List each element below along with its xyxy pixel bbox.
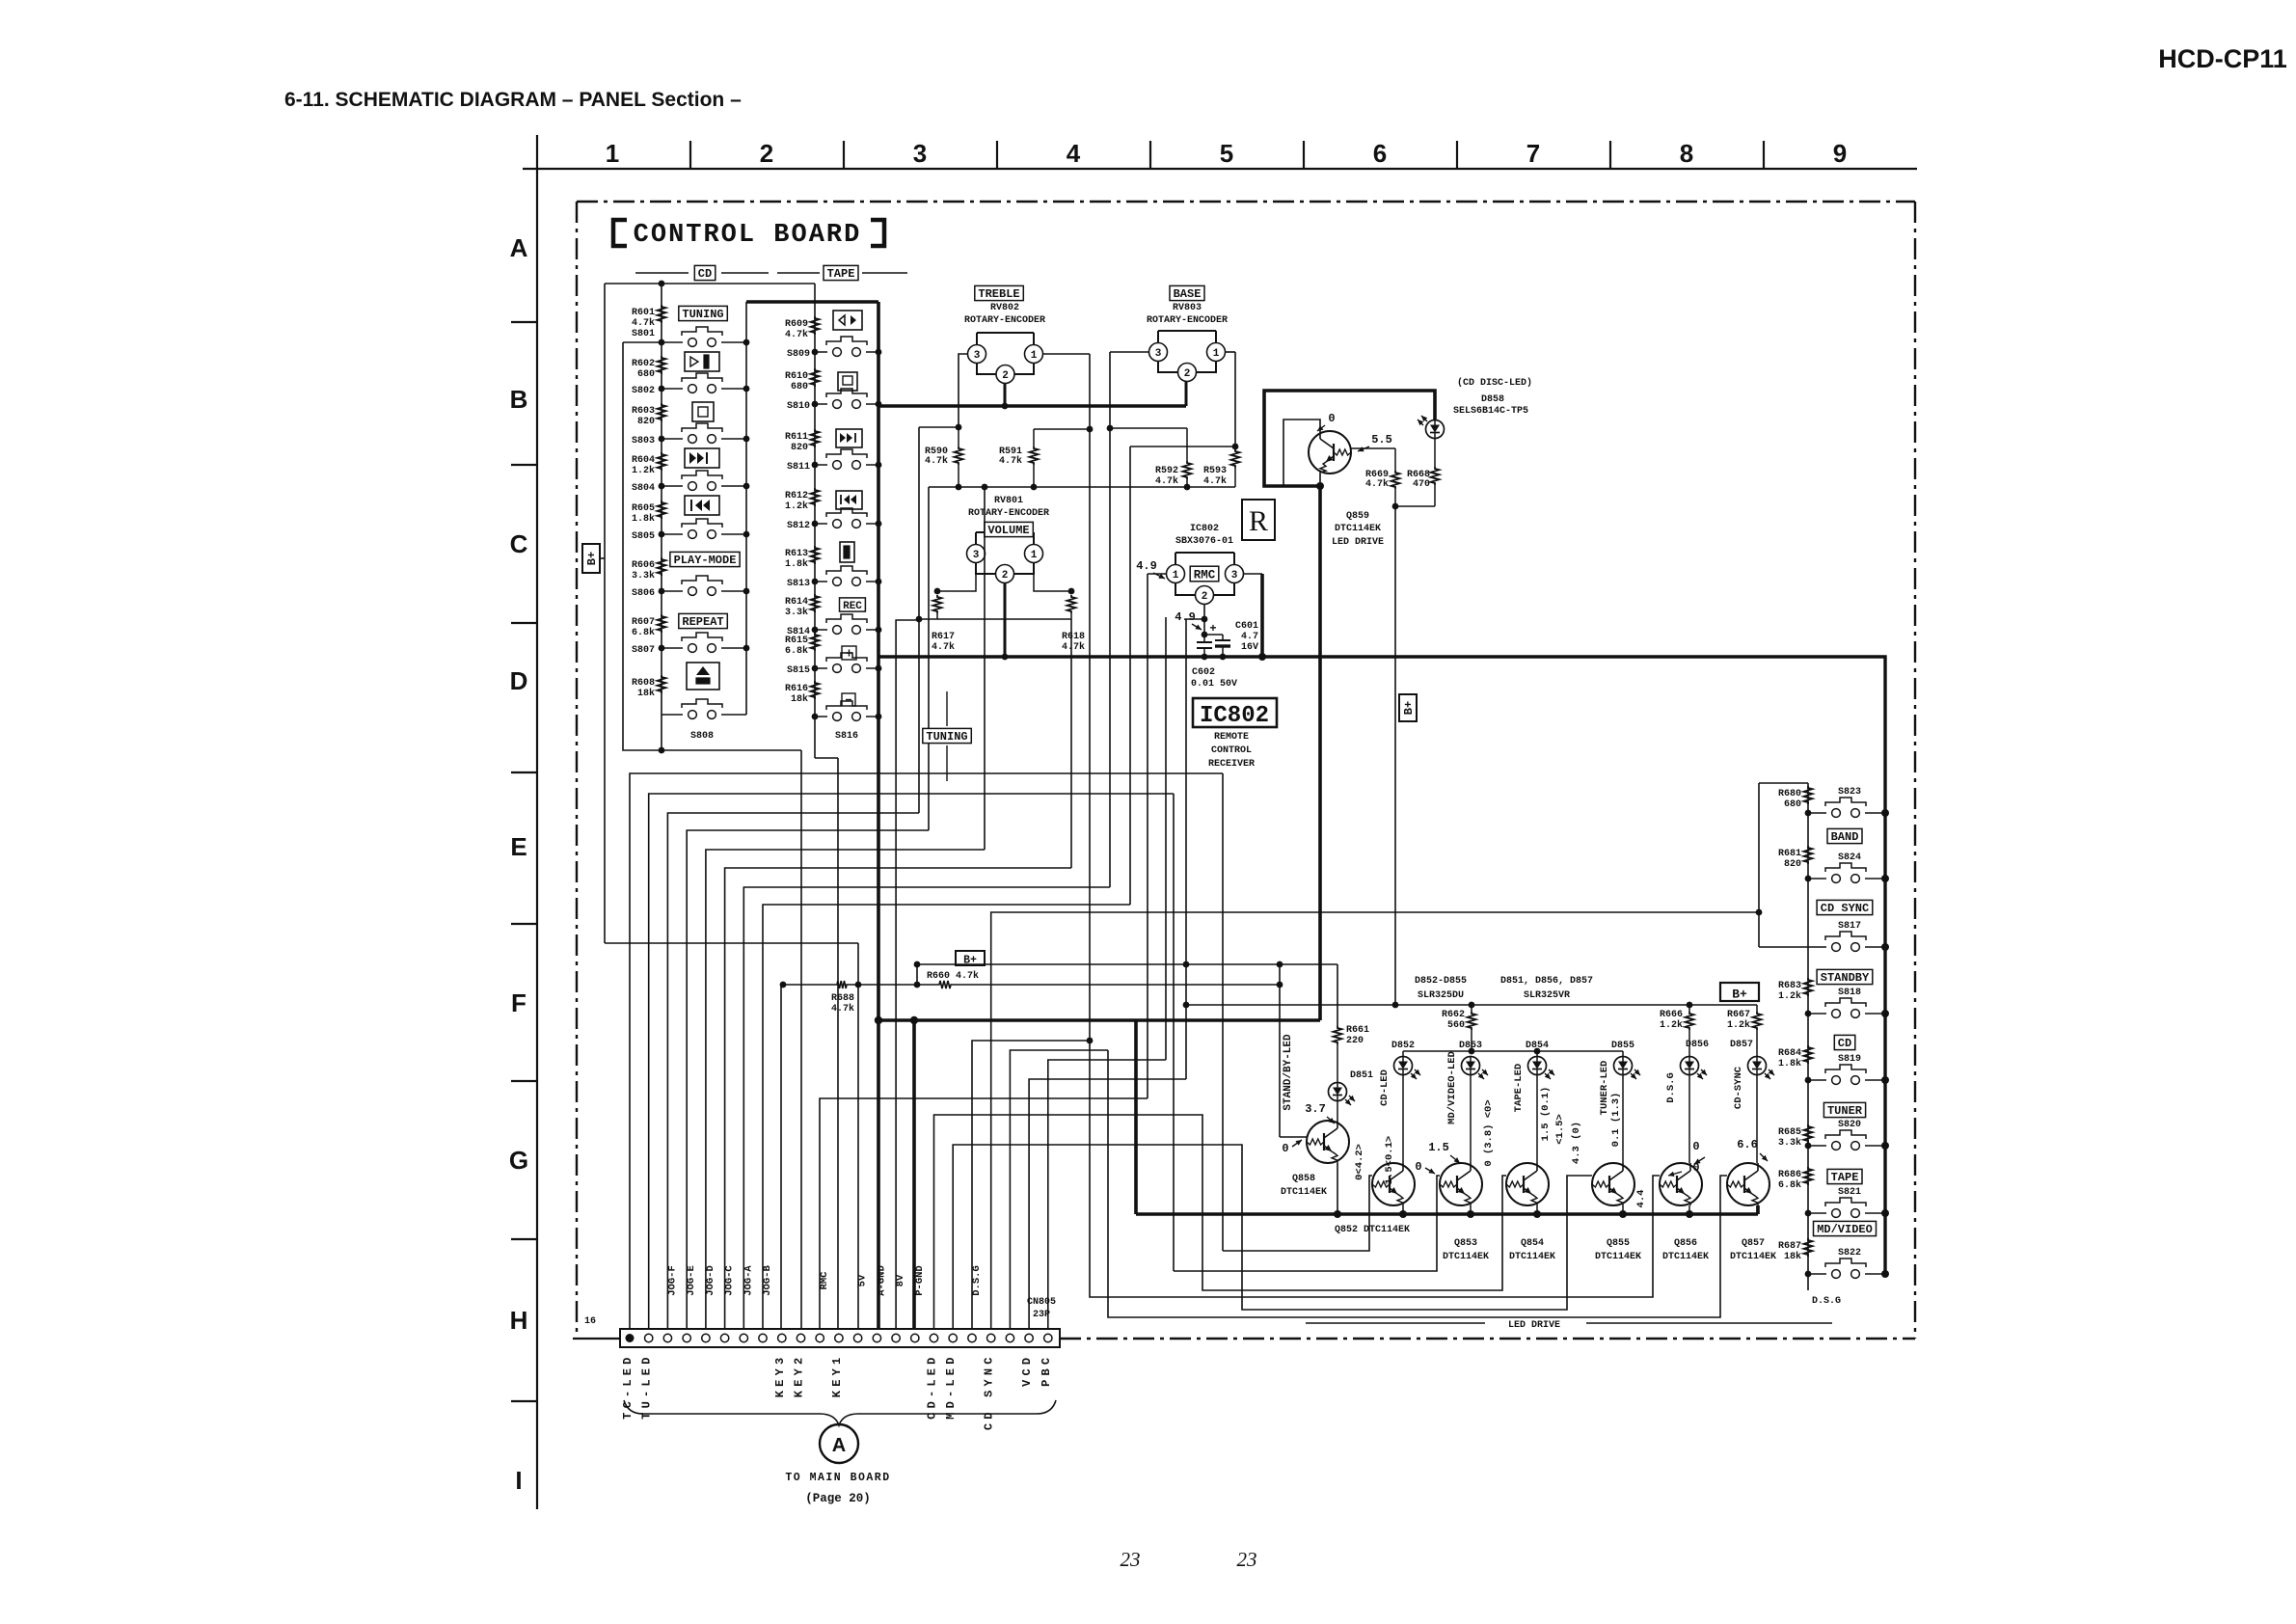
- node RV801 pin2 on ground bus: [1002, 654, 1009, 661]
- wire net pin4 riser and jog: [687, 830, 929, 1329]
- resistor R661 220: [1334, 1026, 1342, 1044]
- svg-text:CD: CD: [698, 267, 712, 281]
- node volume rail left: [916, 616, 923, 623]
- svg-text:S823: S823: [1838, 787, 1861, 798]
- wire RV803 pin3 descender: [1109, 352, 1111, 887]
- wire D.S.G net riser: [972, 1041, 1090, 1329]
- wire encoder pulldown rail: [929, 486, 1235, 488]
- node Q858 emitter: [1334, 1210, 1341, 1218]
- node R660 right at standby net: [1277, 982, 1283, 988]
- connector pin 20: [986, 1334, 994, 1341]
- svg-text:R617: R617: [932, 632, 955, 642]
- node S803 ladder junction: [659, 436, 665, 443]
- grid row tick 4: [511, 771, 537, 773]
- svg-text:R601: R601: [632, 308, 655, 318]
- svg-text:CD SYNC: CD SYNC: [1821, 902, 1869, 915]
- connector A circle: [820, 1424, 858, 1463]
- wire thick Q859 supply loop: [1264, 391, 1435, 486]
- node S811 ground-rail junction: [876, 462, 882, 469]
- svg-text:R592: R592: [1155, 466, 1178, 476]
- svg-text:B+: B+: [585, 552, 599, 565]
- wire B+ left rail: [604, 284, 606, 943]
- svg-text:B+: B+: [1732, 988, 1747, 1002]
- switch S805: [662, 533, 683, 535]
- wire CD SYNC riser right: [1758, 783, 1760, 947]
- svg-text:JOG-E: JOG-E: [686, 1265, 697, 1296]
- label STANDBY: [1817, 969, 1873, 984]
- svg-text:DTC114EK: DTC114EK: [1509, 1252, 1555, 1262]
- node 4.9 tap: [1202, 616, 1208, 623]
- connector pin 1 filled: [626, 1334, 635, 1342]
- svg-text:3.3k: 3.3k: [1778, 1137, 1801, 1149]
- svg-text:S822: S822: [1838, 1248, 1861, 1259]
- svg-text:18k: 18k: [637, 688, 655, 699]
- svg-text:Q856: Q856: [1674, 1238, 1697, 1249]
- connector pin 21: [1006, 1334, 1013, 1341]
- node R590 bottom: [956, 484, 962, 491]
- node S810 ground-rail junction: [876, 401, 882, 408]
- svg-text:3.3k: 3.3k: [632, 570, 655, 582]
- wire RMC jog to pin: [820, 1098, 1148, 1329]
- svg-text:1.2k: 1.2k: [1778, 990, 1801, 1002]
- label PLAY-MODE S806: [670, 552, 740, 566]
- svg-text:ROTARY-ENCODER: ROTARY-ENCODER: [964, 315, 1045, 326]
- resistor R612 1.2k: [811, 488, 820, 506]
- rotary encoder RV803 BASE: [1158, 330, 1216, 332]
- svg-text:S813: S813: [787, 579, 810, 589]
- ic802 pin 2: [1196, 586, 1214, 605]
- connector CN805 23P body: [620, 1329, 1060, 1347]
- svg-text:TREBLE: TREBLE: [978, 287, 1019, 301]
- node S809 ground-rail junction: [876, 349, 882, 356]
- switch S804: [662, 485, 683, 487]
- svg-text:4.7k: 4.7k: [925, 455, 948, 467]
- svg-text:SBX3076-01: SBX3076-01: [1175, 536, 1233, 547]
- grid row tick 2: [511, 464, 537, 466]
- power B+ box left border: [582, 544, 600, 573]
- svg-text:680: 680: [1784, 799, 1801, 810]
- grid row tick 6: [511, 1080, 537, 1082]
- svg-text:4.7k: 4.7k: [632, 317, 655, 329]
- svg-text:6.6: 6.6: [1737, 1138, 1758, 1151]
- svg-text:DTC114EK: DTC114EK: [1595, 1252, 1641, 1262]
- node Q855 emitter: [1619, 1210, 1627, 1218]
- icon rew S812: [836, 491, 862, 509]
- svg-text:18k: 18k: [1784, 1251, 1801, 1262]
- switch S812: [815, 523, 827, 525]
- resistor R681 820: [1804, 846, 1813, 864]
- svg-text:0<4.2>: 0<4.2>: [1354, 1144, 1365, 1180]
- node key pullup: [914, 982, 921, 988]
- svg-text:TAPE: TAPE: [827, 267, 855, 281]
- wire RV801 pin3 jog: [937, 563, 976, 591]
- label BAND: [1827, 828, 1862, 843]
- svg-text:S803: S803: [632, 436, 655, 447]
- label TUNING S801: [679, 306, 728, 320]
- resistor R616 18k: [811, 681, 820, 699]
- icon plus S815: [842, 646, 856, 660]
- svg-text:D854: D854: [1526, 1041, 1549, 1051]
- wire D855 anode stub: [1622, 1051, 1624, 1057]
- wire thick LED drive trunk: [1318, 486, 1322, 1020]
- svg-text:JOG-D: JOG-D: [705, 1265, 716, 1296]
- svg-text:TUNING: TUNING: [926, 730, 967, 744]
- node S807 ladder junction: [659, 645, 665, 652]
- connector pin 4: [683, 1334, 690, 1341]
- wire KEY3 riser: [780, 985, 782, 1329]
- wire net pin1 riser and jog: [630, 773, 1223, 1329]
- node Q853 emitter: [1467, 1210, 1474, 1218]
- svg-text:560: 560: [1447, 1020, 1465, 1031]
- switch S819: [1808, 1079, 1826, 1081]
- grid row tick 1: [511, 321, 537, 323]
- label TAPE: [1827, 1169, 1862, 1183]
- svg-text:R609: R609: [785, 319, 808, 330]
- svg-text:D.S.G: D.S.G: [971, 1265, 983, 1296]
- label LED DRIVE: [1306, 1322, 1485, 1324]
- svg-text:R666: R666: [1660, 1010, 1683, 1020]
- CONTROL BOARD heading: [613, 220, 627, 246]
- rotary encoder RV801 VOLUME: [976, 531, 1034, 533]
- svg-text:1.5<0.1>: 1.5<0.1>: [1384, 1136, 1395, 1184]
- grid row tick 3: [511, 622, 537, 624]
- connector pin 12: [835, 1334, 843, 1341]
- svg-text:0: 0: [1692, 1140, 1699, 1153]
- wire B+ led feed line: [1186, 1004, 1757, 1006]
- svg-text:2: 2: [1002, 370, 1009, 382]
- node S807 key-common junction: [743, 645, 750, 652]
- ic802 pin 3: [1226, 565, 1244, 583]
- svg-text:B+: B+: [1402, 701, 1416, 715]
- svg-text:Q853: Q853: [1454, 1238, 1477, 1249]
- node S816 ground-rail junction: [876, 714, 882, 720]
- node thick at A-GND rail: [875, 1016, 882, 1024]
- svg-text:CD-LED: CD-LED: [1379, 1069, 1391, 1106]
- svg-text:KEY2: KEY2: [793, 1354, 806, 1398]
- transistor Q857 DTC114EK: [1727, 1163, 1769, 1205]
- transistor Q855 DTC114EK: [1592, 1163, 1634, 1205]
- resistor R602 680: [658, 356, 666, 374]
- svg-text:6.8k: 6.8k: [785, 645, 808, 657]
- svg-text:S804: S804: [632, 483, 655, 494]
- switch S808: [662, 714, 683, 716]
- label REC S814: [840, 598, 866, 611]
- svg-text:PBC: PBC: [1040, 1354, 1053, 1387]
- wire Q858 emitter to bus: [1337, 1163, 1338, 1214]
- wire thick LED drive horizontal: [878, 1018, 1320, 1022]
- rotary encoder RV802 TREBLE: [977, 332, 1034, 334]
- svg-text:R607: R607: [632, 617, 655, 628]
- svg-text:2: 2: [1002, 570, 1009, 582]
- switch S801: [662, 341, 683, 343]
- svg-text:S806: S806: [632, 588, 655, 599]
- svg-text:(CD DISC-LED): (CD DISC-LED): [1457, 377, 1532, 389]
- svg-text:2: 2: [1202, 591, 1208, 603]
- svg-text:RECEIVER: RECEIVER: [1208, 759, 1255, 770]
- remote receiver R symbol box: [1242, 500, 1275, 540]
- connector pin 9: [778, 1334, 786, 1341]
- svg-text:VCD: VCD: [1020, 1354, 1034, 1387]
- connector pin 7: [740, 1334, 747, 1341]
- wire B+ net horizontal: [917, 963, 1337, 965]
- icon ffwd S811: [836, 429, 862, 447]
- wire VCD net riser: [1029, 1079, 1186, 1329]
- svg-text:C601: C601: [1235, 621, 1258, 632]
- connector pin 16: [911, 1334, 919, 1341]
- svg-text:B: B: [510, 385, 528, 414]
- wire Q854 collector: [1536, 1075, 1538, 1164]
- svg-text:<1.5>: <1.5>: [1554, 1114, 1566, 1145]
- svg-text:4.4: 4.4: [1635, 1190, 1647, 1208]
- resistor R662 560: [1471, 1005, 1472, 1012]
- resistor R611 820: [811, 429, 820, 447]
- svg-text:6.8k: 6.8k: [632, 627, 655, 638]
- svg-text:5: 5: [1220, 139, 1233, 168]
- svg-text:S802: S802: [632, 386, 655, 396]
- svg-text:R680: R680: [1778, 789, 1801, 799]
- svg-text:VOLUME: VOLUME: [987, 524, 1029, 537]
- wire Q855 emitter: [1622, 1205, 1624, 1214]
- svg-text:0: 0: [1282, 1142, 1288, 1155]
- wire Q859 base: [1351, 447, 1395, 449]
- resistor R613 1.8k: [811, 546, 820, 564]
- svg-text:JOG-A: JOG-A: [743, 1265, 754, 1296]
- svg-text:5.5: 5.5: [1371, 433, 1392, 447]
- connector pin 6: [720, 1334, 728, 1341]
- led D852: [1394, 1057, 1413, 1075]
- svg-text:PLAY-MODE: PLAY-MODE: [674, 554, 737, 567]
- svg-text:DTC114EK: DTC114EK: [1335, 524, 1381, 534]
- node S801 key-common junction: [743, 339, 750, 346]
- node C601 ground: [1220, 654, 1227, 661]
- node CD SYNC junction: [1756, 909, 1763, 916]
- svg-text:16: 16: [584, 1316, 596, 1327]
- svg-text:DTC114EK: DTC114EK: [1730, 1252, 1776, 1262]
- svg-text:Q852 DTC114EK: Q852 DTC114EK: [1335, 1225, 1410, 1235]
- svg-text:8: 8: [1680, 139, 1693, 168]
- svg-text:3.7: 3.7: [1305, 1102, 1326, 1116]
- svg-text:R687: R687: [1778, 1241, 1801, 1252]
- transistor Q854 DTC114EK: [1506, 1163, 1549, 1205]
- svg-text:820: 820: [637, 417, 655, 427]
- svg-text:SELS6B14C-TP5: SELS6B14C-TP5: [1453, 406, 1528, 417]
- svg-text:RV803: RV803: [1173, 303, 1202, 313]
- node S824 rail junction: [1805, 876, 1812, 882]
- grid column tick 8: [1763, 141, 1765, 169]
- switch S820: [1808, 1145, 1826, 1147]
- svg-text:LED DRIVE: LED DRIVE: [1508, 1320, 1560, 1331]
- wire key pullup line: [783, 984, 835, 986]
- switch S802: [662, 388, 683, 390]
- node RV803 pin3 tap: [1107, 425, 1114, 432]
- icon tape direction S809: [833, 311, 862, 330]
- svg-text:S815: S815: [787, 665, 810, 676]
- svg-text:IC802: IC802: [1200, 703, 1269, 729]
- wire JOG-D descender: [984, 487, 986, 850]
- wire CD SYNC net: [991, 912, 1759, 1329]
- svg-text:DTC114EK: DTC114EK: [1662, 1252, 1709, 1262]
- svg-text:R681: R681: [1778, 849, 1801, 859]
- resistor R605 1.8k: [658, 501, 666, 519]
- svg-text:6.8k: 6.8k: [1778, 1179, 1801, 1191]
- svg-text:S807: S807: [632, 645, 655, 656]
- resistor R615 6.8k: [811, 633, 820, 651]
- node R662 bottom anode link: [1469, 1048, 1475, 1055]
- connector pin 2: [645, 1334, 653, 1341]
- svg-text:0: 0: [1692, 1161, 1699, 1175]
- svg-text:1: 1: [1213, 348, 1220, 360]
- wire RV803 pin3 side wire: [1110, 351, 1148, 353]
- wire net pin2 riser and jog: [649, 794, 1174, 1329]
- svg-text:2: 2: [760, 139, 773, 168]
- wire B+ rail to 5V pin horizontal: [605, 942, 858, 944]
- node S813 ground-rail junction: [876, 579, 882, 585]
- svg-text:D858: D858: [1481, 394, 1504, 405]
- resistor R618 4.7k: [1067, 595, 1076, 613]
- label VOLUME: [985, 522, 1034, 536]
- svg-text:CN805: CN805: [1027, 1297, 1056, 1308]
- header label TAPE: [777, 272, 820, 274]
- svg-text:TUNING: TUNING: [682, 308, 723, 321]
- node Q859 emitter thick: [1316, 482, 1324, 490]
- svg-text:R662: R662: [1442, 1010, 1465, 1020]
- switch S811: [815, 464, 827, 466]
- wire PBC net riser: [1048, 1060, 1166, 1329]
- svg-text:JOG-C: JOG-C: [724, 1265, 736, 1296]
- svg-text:S801: S801: [632, 329, 655, 339]
- node R618 top: [1068, 588, 1075, 595]
- wire D851 to Q858 collector: [1337, 1101, 1338, 1122]
- resistor R685 3.3k: [1804, 1124, 1813, 1143]
- wire RV802 pin3 jog: [959, 354, 967, 427]
- svg-text:470: 470: [1413, 479, 1430, 490]
- node S812 ladder junction: [812, 521, 819, 528]
- svg-text:6: 6: [1373, 139, 1387, 168]
- wire R591 top jog: [1034, 428, 1090, 430]
- svg-text:R611: R611: [785, 432, 808, 443]
- label TUNER: [1823, 1102, 1865, 1117]
- brace to main board: [624, 1400, 1056, 1425]
- power B+ box bundle: [956, 951, 985, 965]
- header label CD: [635, 272, 689, 274]
- svg-text:P-GND: P-GND: [914, 1265, 926, 1296]
- wire RV802 pin1 side wire: [1043, 353, 1090, 355]
- wire thick CD-TAPE common strap: [746, 300, 878, 304]
- node standby top: [1277, 961, 1283, 968]
- svg-text:LED DRIVE: LED DRIVE: [1332, 537, 1384, 548]
- svg-text:R610: R610: [785, 371, 808, 382]
- svg-text:1.2k: 1.2k: [632, 465, 655, 476]
- svg-text:D.S.G: D.S.G: [1665, 1072, 1677, 1103]
- svg-text:R602: R602: [632, 359, 655, 369]
- svg-text:4.3 (0): 4.3 (0): [1571, 1122, 1582, 1164]
- switch S823: [1808, 812, 1826, 814]
- svg-text:0: 0: [1328, 412, 1335, 425]
- svg-text:1.2k: 1.2k: [1727, 1019, 1750, 1031]
- wire B+ top feed: [605, 283, 815, 284]
- icon minus S816: [842, 693, 855, 706]
- switch S821: [1808, 1212, 1826, 1214]
- wire RMC pin3 ground drop thick: [1260, 574, 1264, 657]
- label CD SYNC: [1817, 900, 1873, 914]
- node S816 ladder junction: [812, 714, 819, 720]
- svg-text:S820: S820: [1838, 1120, 1861, 1130]
- wire thick LED drive down leg: [1134, 1020, 1138, 1214]
- ic802 RMC bracket: [1175, 552, 1234, 554]
- svg-text:DTC114EK: DTC114EK: [1443, 1252, 1489, 1262]
- wire CD ladder resistor rail: [661, 284, 662, 750]
- svg-text:RMC: RMC: [1194, 568, 1216, 582]
- node S809 ladder junction: [812, 349, 819, 356]
- ic802 pin 1: [1167, 565, 1185, 583]
- control board dashed border left: [576, 202, 578, 1339]
- svg-text:5V: 5V: [857, 1274, 869, 1286]
- wire thick TAPE common A-GND rail: [877, 302, 880, 1329]
- wire R660 line: [917, 984, 937, 986]
- svg-text:4.7k: 4.7k: [831, 1003, 854, 1015]
- connector pin 13: [853, 1334, 861, 1341]
- node S822 common junction: [1881, 1270, 1889, 1278]
- grid row tick 7: [511, 1238, 537, 1240]
- wire D854 anode stub: [1536, 1051, 1538, 1057]
- svg-text:R593: R593: [1203, 466, 1227, 476]
- svg-text:1.2k: 1.2k: [1660, 1019, 1683, 1031]
- wire Q853 emitter: [1470, 1205, 1472, 1214]
- svg-text:1: 1: [606, 139, 619, 168]
- wire Q852 base staircase: [1223, 1176, 1372, 1251]
- svg-text:D851, D856, D857: D851, D856, D857: [1500, 976, 1593, 987]
- svg-text:STANDBY: STANDBY: [1821, 971, 1870, 985]
- icon play/pause S802: [685, 352, 719, 371]
- svg-text:680: 680: [791, 382, 808, 392]
- wire Q857 emitter: [1756, 1205, 1758, 1214]
- svg-text:4.7k: 4.7k: [999, 455, 1022, 467]
- wire TAPE ladder resistor rail: [814, 284, 816, 758]
- switch S814: [815, 629, 827, 631]
- wire 4.9V tap jog: [1186, 618, 1204, 620]
- wire JOG-B descender: [1129, 447, 1131, 905]
- svg-text:4.7k: 4.7k: [1203, 475, 1227, 487]
- svg-text:R618: R618: [1062, 632, 1085, 642]
- resistor R668 470: [1434, 439, 1436, 468]
- svg-text:23: 23: [1237, 1548, 1257, 1571]
- svg-text:R603: R603: [632, 406, 655, 417]
- connector pin 19: [968, 1334, 976, 1341]
- grid column tick 3: [996, 141, 998, 169]
- svg-text:2: 2: [1184, 368, 1191, 380]
- svg-text:23: 23: [1121, 1548, 1141, 1571]
- wire S801 row left extension: [623, 341, 662, 343]
- svg-text:S814: S814: [787, 627, 810, 637]
- led D851 STAND/BY: [1329, 1083, 1347, 1101]
- node B+ net left: [914, 961, 921, 968]
- wire C601 top jog: [1204, 634, 1223, 636]
- connector pin 8: [759, 1334, 767, 1341]
- grid ruler horizontal line: [523, 168, 1917, 170]
- wire net pin5 riser and jog: [706, 850, 985, 1329]
- wire VCD descender: [1185, 619, 1187, 1079]
- svg-text:S819: S819: [1838, 1054, 1861, 1065]
- switch S817: [1759, 946, 1826, 948]
- wire RV802 pin2 drop: [1004, 383, 1007, 406]
- node feed at R666: [1687, 1002, 1693, 1009]
- svg-text:Q859: Q859: [1346, 511, 1369, 522]
- svg-text:R661: R661: [1346, 1025, 1369, 1036]
- connector pin 3: [663, 1334, 671, 1341]
- svg-text:1.8k: 1.8k: [632, 513, 655, 525]
- resistor R591 4.7k: [1033, 429, 1035, 447]
- resistor R604 1.2k: [658, 452, 666, 471]
